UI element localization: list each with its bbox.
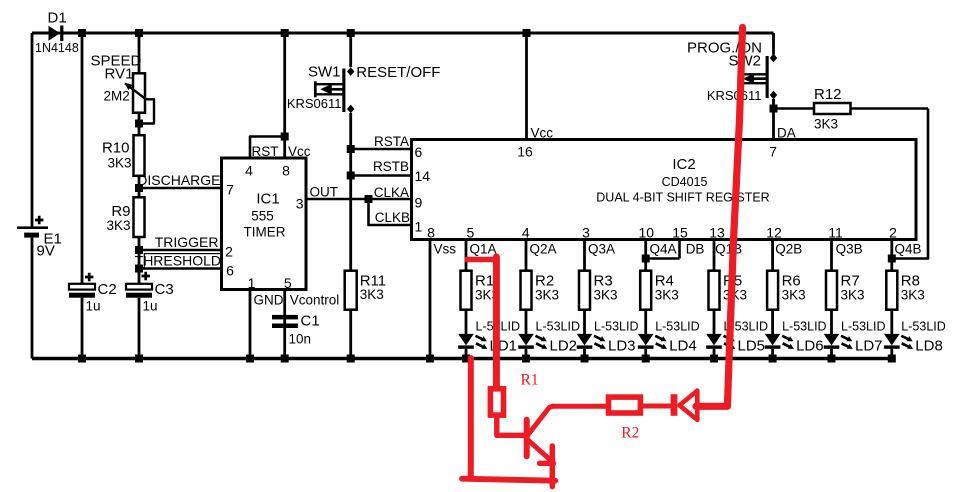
node junction LD2 [522, 355, 530, 363]
svg-text:Q2B: Q2B [775, 242, 802, 257]
LED LD2 [518, 319, 580, 354]
svg-text:6: 6 [226, 262, 234, 278]
node junction RSTA [347, 145, 355, 153]
svg-text:C2: C2 [98, 281, 117, 298]
wire red tap Q1A [465, 257, 496, 387]
wire DISCHARGE [137, 172, 221, 188]
node junction LD8 [888, 355, 896, 363]
svg-text:Vcc: Vcc [288, 144, 311, 159]
wire Vss [430, 240, 456, 359]
wire Q2A pin [526, 240, 557, 271]
svg-text:Q3A: Q3A [588, 242, 615, 257]
svg-text:5: 5 [284, 275, 292, 291]
svg-text:DUAL 4-BIT SHIFT REGISTER: DUAL 4-BIT SHIFT REGISTER [596, 191, 769, 205]
wire top +V rail [32, 32, 774, 35]
svg-text:Q1B: Q1B [715, 242, 742, 257]
wire Vcc IC2 [525, 33, 528, 140]
svg-text:SW1: SW1 [308, 64, 341, 81]
svg-text:3K3: 3K3 [106, 218, 130, 233]
op-amp U2 substitute IC2 CD4015 box [412, 140, 917, 241]
svg-text:GND: GND [254, 293, 284, 308]
node junction LD6 [769, 355, 777, 363]
node junction RST Vcc [281, 133, 289, 141]
wire Q3B pin [832, 240, 863, 271]
svg-text:DA: DA [777, 126, 796, 141]
op-amp U1 substitute IC1 555 timer box [222, 144, 340, 308]
svg-text:10: 10 [639, 225, 655, 241]
svg-text:Vcc: Vcc [531, 126, 554, 141]
wire THRESHOLD [135, 253, 222, 269]
svg-text:Q2A: Q2A [530, 242, 557, 257]
svg-text:LD4: LD4 [669, 338, 697, 355]
svg-text:R12: R12 [814, 86, 842, 103]
svg-text:4: 4 [522, 225, 530, 241]
svg-text:1u: 1u [86, 299, 101, 314]
resistor R4 [640, 271, 679, 310]
node junction LD4 [642, 355, 650, 363]
resistor R2 [521, 271, 560, 310]
wire Q4A pin [646, 240, 677, 271]
node junction C2 top [78, 29, 86, 37]
LED LD8 [884, 319, 946, 354]
wire C3 ground [138, 298, 141, 359]
svg-text:LD3: LD3 [608, 338, 636, 355]
svg-text:8: 8 [282, 163, 290, 179]
capacitor C3 [126, 272, 174, 314]
wire RSTB [351, 159, 412, 175]
svg-text:3K3: 3K3 [655, 288, 679, 303]
potentiometer RV1 [91, 52, 155, 123]
svg-text:8: 8 [427, 225, 435, 241]
svg-text:L-53LID: L-53LID [536, 319, 580, 333]
node junction LD3 [581, 355, 589, 363]
svg-text:6: 6 [415, 144, 423, 160]
LED LD1 [458, 319, 520, 354]
wire LD6 ground [771, 349, 774, 359]
node junction R11 ground [347, 355, 355, 363]
svg-text:L-53LID: L-53LID [841, 319, 885, 333]
node junction LD1 [462, 355, 470, 363]
svg-text:KRS0611: KRS0611 [287, 96, 342, 111]
svg-text:RV1: RV1 [105, 65, 134, 82]
resistor R1 red [490, 371, 538, 415]
node junction top rail SW1 [347, 29, 355, 37]
resistor R3 [579, 271, 618, 310]
svg-text:Q4B: Q4B [895, 242, 922, 257]
wire R12 to Q4B [892, 109, 928, 259]
svg-text:D1: D1 [48, 10, 67, 27]
svg-text:2M2: 2M2 [104, 88, 130, 103]
wire Q4B pin [892, 240, 922, 271]
svg-text:11: 11 [828, 225, 843, 241]
wire R2 to LD2 [525, 310, 528, 334]
node junction RV1 wiper [135, 120, 143, 128]
node junction Q4B R12 [888, 255, 896, 263]
svg-text:L-53LID: L-53LID [901, 319, 945, 333]
svg-text:3: 3 [296, 195, 304, 211]
node junction TRIGGER [135, 246, 143, 254]
svg-text:2: 2 [889, 225, 897, 241]
wire OUT [306, 184, 412, 199]
svg-text:RESET/OFF: RESET/OFF [356, 64, 440, 81]
wire red collector [552, 404, 608, 409]
LED LD5 [706, 319, 768, 354]
svg-text:KRS0611: KRS0611 [707, 88, 762, 103]
wire Vcc pin16 label [531, 126, 554, 141]
resistor R1 [461, 271, 500, 310]
svg-text:LD7: LD7 [855, 338, 883, 355]
svg-text:RST: RST [252, 144, 279, 159]
svg-text:3K3: 3K3 [594, 288, 618, 303]
svg-text:3K3: 3K3 [107, 156, 131, 171]
resistor R6 [767, 271, 806, 310]
svg-text:IC2: IC2 [672, 156, 695, 173]
wire LD4 ground [644, 349, 647, 359]
wire TRIGGER [139, 234, 222, 250]
svg-text:16: 16 [517, 144, 533, 160]
svg-text:7: 7 [769, 144, 777, 160]
wire DA pin7 label [777, 126, 796, 141]
svg-text:RSTB: RSTB [373, 159, 409, 174]
wire R4 to LD4 [644, 310, 647, 334]
wire R6 to LD6 [771, 310, 774, 334]
svg-text:3K3: 3K3 [901, 288, 925, 303]
wire R10 to R9 [138, 176, 141, 198]
node junction LD7 [828, 355, 836, 363]
LED LD3 [577, 319, 639, 354]
svg-text:L-53LID: L-53LID [655, 319, 699, 333]
wire LD3 ground [583, 349, 586, 359]
wire R5 to LD5 [713, 310, 716, 334]
svg-text:Q1A: Q1A [470, 242, 497, 257]
node junction THRESHOLD [135, 265, 143, 273]
switch SW2 [687, 39, 777, 103]
svg-text:IC1: IC1 [256, 190, 279, 207]
svg-text:3K3: 3K3 [535, 288, 559, 303]
wire red emitter ground [462, 358, 555, 481]
svg-text:TIMER: TIMER [244, 224, 286, 239]
resistor R7 [826, 271, 865, 310]
wire LD8 ground [890, 349, 893, 359]
node junction top rail RST [281, 29, 289, 37]
svg-text:LD8: LD8 [915, 338, 943, 355]
LED LD4 [638, 319, 700, 354]
wire RV1 top [138, 33, 141, 73]
svg-text:3: 3 [582, 225, 590, 241]
node junction C2 ground [78, 355, 86, 363]
svg-text:Vss: Vss [434, 242, 457, 257]
svg-text:Q3B: Q3B [836, 242, 863, 257]
svg-text:10n: 10n [289, 332, 312, 347]
svg-text:15: 15 [672, 225, 688, 241]
svg-text:1u: 1u [143, 299, 158, 314]
svg-text:R2: R2 [621, 425, 639, 442]
svg-text:1N4148: 1N4148 [35, 41, 79, 55]
svg-text:3K3: 3K3 [782, 288, 806, 303]
wire Q1A pin [466, 240, 497, 271]
svg-text:THRESHOLD: THRESHOLD [135, 253, 221, 269]
wire R11 ground [349, 310, 352, 359]
wire R9 to C3 [138, 237, 141, 284]
wire LD1 ground [465, 349, 468, 359]
svg-text:CLKA: CLKA [374, 185, 409, 200]
svg-text:C3: C3 [155, 281, 174, 298]
node junction DA R12 [770, 105, 778, 113]
svg-text:Vcontrol: Vcontrol [290, 293, 340, 308]
wire R8 to LD8 [890, 310, 893, 334]
wire SW1 top [349, 33, 352, 67]
svg-text:R1: R1 [521, 371, 539, 388]
switch SW1 [287, 64, 441, 114]
wire ground rail [32, 357, 892, 360]
svg-text:OUT: OUT [310, 184, 339, 199]
svg-text:5: 5 [467, 225, 475, 241]
wire red base [497, 417, 525, 436]
svg-text:4: 4 [245, 163, 253, 179]
svg-text:2: 2 [225, 243, 233, 259]
wire Q2B pin [773, 240, 803, 271]
wire R1 to LD1 [465, 310, 468, 334]
svg-text:LD2: LD2 [550, 338, 578, 355]
svg-text:Q4A: Q4A [650, 242, 677, 257]
transistor Q1 red [527, 406, 554, 486]
resistor R10 [102, 135, 145, 176]
node junction CLKB [365, 195, 373, 203]
resistor R5 [709, 271, 748, 310]
svg-text:14: 14 [415, 168, 431, 184]
wire SW1 to R11 [349, 113, 352, 271]
wire top rail to SW2 [772, 33, 775, 55]
wire SW2 to DA [772, 99, 775, 140]
wire C2 branch [81, 33, 84, 359]
svg-text:9: 9 [415, 195, 423, 211]
wire red program line [696, 28, 743, 407]
wire LD7 ground [830, 349, 833, 359]
LED LD7 [824, 319, 886, 354]
node junction LD5 [710, 355, 718, 363]
wire LD5 ground [713, 349, 716, 359]
diode D red [671, 391, 698, 420]
svg-text:1: 1 [415, 219, 423, 235]
svg-text:RSTA: RSTA [374, 134, 409, 149]
svg-text:3K3: 3K3 [814, 117, 838, 132]
capacitor C1 [272, 313, 320, 347]
wire DB to Q4A [646, 240, 705, 259]
wire RST-Vcc branch [250, 33, 285, 158]
wire left battery branch [31, 33, 34, 359]
node junction top rail Vcc [523, 29, 531, 37]
wire LD2 ground [525, 349, 528, 359]
svg-text:9V: 9V [37, 243, 55, 260]
svg-text:12: 12 [766, 225, 782, 241]
svg-text:L-53LID: L-53LID [594, 319, 638, 333]
svg-text:DISCHARGE: DISCHARGE [137, 172, 220, 188]
node junction RSTB [347, 172, 355, 180]
resistor R11 [345, 271, 386, 310]
battery E1 [17, 216, 62, 260]
wire RV1 to R10 [138, 113, 141, 136]
node junction R-chain top [135, 29, 143, 37]
wire R7 to LD7 [830, 310, 833, 334]
wire RSTA [351, 134, 412, 149]
wire GND pin1 [249, 290, 252, 359]
svg-text:TRIGGER: TRIGGER [155, 234, 219, 250]
wire CLKA label [374, 185, 409, 200]
diode D1 [35, 10, 79, 55]
node junction Vcontrol ground [281, 355, 289, 363]
wire Vcontrol pin5 [283, 290, 286, 359]
resistor R8 [886, 271, 925, 310]
svg-text:7: 7 [226, 181, 234, 197]
node junction DISCHARGE [135, 184, 143, 192]
resistor R12 [774, 86, 929, 132]
node junction Q4A DB [642, 255, 650, 263]
LED LD6 [765, 319, 827, 354]
svg-text:L-53LID: L-53LID [782, 319, 826, 333]
wire CLKB [369, 199, 412, 225]
svg-text:1: 1 [248, 275, 256, 291]
svg-text:R10: R10 [102, 140, 130, 157]
svg-text:LD5: LD5 [738, 338, 766, 355]
svg-text:DB: DB [686, 242, 705, 257]
svg-text:13: 13 [709, 225, 725, 241]
resistor R9 [106, 197, 144, 237]
capacitor C2 [69, 273, 117, 314]
wire Q1B pin [714, 240, 742, 271]
svg-text:3K3: 3K3 [841, 288, 865, 303]
wire Q3A pin [585, 240, 616, 271]
svg-text:LD6: LD6 [796, 338, 824, 355]
svg-text:3K3: 3K3 [360, 287, 384, 302]
wire R3 to LD3 [583, 310, 586, 334]
svg-text:555: 555 [251, 209, 274, 224]
svg-text:C1: C1 [301, 313, 320, 330]
node junction C3 ground [135, 355, 143, 363]
resistor R2 red [609, 397, 641, 442]
svg-text:CD4015: CD4015 [662, 175, 708, 189]
svg-text:CLKB: CLKB [375, 210, 410, 225]
wire red R2 to diode [641, 404, 673, 409]
node junction Vss ground [426, 355, 434, 363]
node junction GND ground [246, 355, 254, 363]
